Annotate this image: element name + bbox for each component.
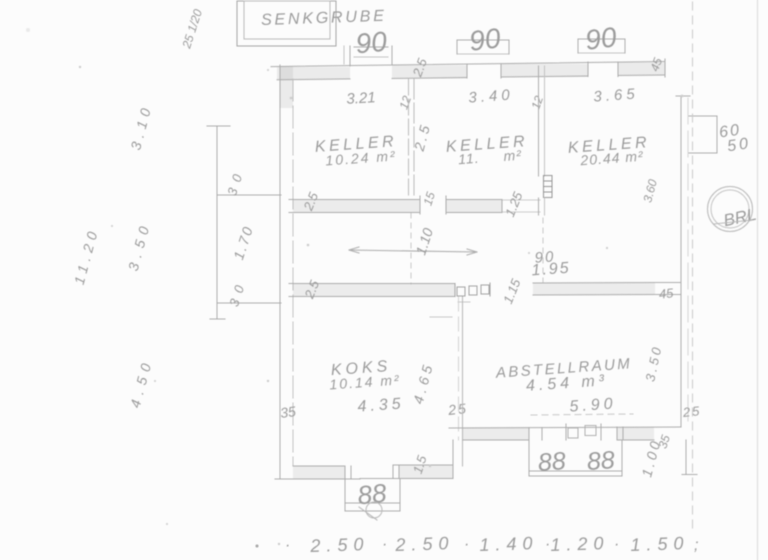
squiggle 25 on wall <box>409 56 430 80</box>
window well box bottom <box>529 440 622 476</box>
label KELLER 3 <box>567 134 650 157</box>
divider B dashes below <box>542 218 544 282</box>
stair tick top <box>207 125 230 127</box>
svg-text:25: 25 <box>446 400 468 418</box>
svg-text:2.50: 2.50 <box>394 533 455 555</box>
dim 30 lower <box>226 277 249 309</box>
window well B <box>457 40 509 54</box>
corridor width 1.10 <box>412 226 436 257</box>
svg-text:·: · <box>382 536 387 553</box>
window B size 90 <box>467 22 502 57</box>
stair tick bottom <box>210 318 225 320</box>
stair landing upper line <box>217 194 281 196</box>
label 60 <box>718 122 742 142</box>
bottom dim 1.50 <box>630 533 690 555</box>
right wall inner dashed <box>687 98 689 427</box>
dim 45 corner <box>658 285 675 302</box>
label 50 <box>726 135 752 155</box>
faint specks <box>26 28 683 548</box>
bottom dim 1.20 <box>550 533 610 555</box>
koks wall jambs <box>345 465 399 479</box>
page edge line right <box>757 0 759 560</box>
svg-text:3.65: 3.65 <box>593 85 639 105</box>
top wall outer line <box>271 62 665 67</box>
door width 15 <box>420 190 438 207</box>
svg-text:3.21: 3.21 <box>346 89 376 108</box>
left wall thickness 35 <box>279 403 297 421</box>
squiggle 25 wall2 left <box>301 277 322 301</box>
koks bottom wall right part <box>360 465 453 479</box>
wall1 door jamb left <box>419 196 421 214</box>
svg-text:90: 90 <box>583 21 618 56</box>
bottom dim dot 4 <box>545 536 550 553</box>
dim 1.70 <box>230 223 256 261</box>
window well A <box>354 47 388 57</box>
dim 4.65 rotated <box>410 360 437 406</box>
wall2 door threshold <box>455 283 490 302</box>
dim 3.50 rotated left <box>125 219 154 273</box>
bottom dim 2.50 b <box>394 533 455 555</box>
dim 3.65 <box>593 85 639 105</box>
seal circle inner <box>711 190 749 228</box>
squiggle 1.15 wall2 mid <box>500 276 524 306</box>
senkgrube box outer <box>237 1 336 46</box>
squiggle 1.25 wall1 right <box>502 189 526 219</box>
top wall band seg2 <box>392 66 467 79</box>
wall2 right corner <box>660 283 681 295</box>
interior wall1 band left <box>289 200 420 213</box>
right wall top tick <box>676 95 690 97</box>
abstellraum bottom wall right seg <box>617 427 654 440</box>
svg-text:90: 90 <box>467 22 502 57</box>
corridor left wall to senkgrube <box>344 46 350 66</box>
property dashed line right <box>692 2 694 530</box>
seal underline <box>714 220 752 224</box>
squiggle 35 right <box>655 433 673 450</box>
bottom dim dot 1 <box>285 537 290 554</box>
dim 3.40 <box>468 86 514 106</box>
divider wall B line1 <box>538 66 540 176</box>
divider wall A line2 <box>413 79 415 199</box>
well glyphs 88 right <box>586 446 616 476</box>
scale note 25 1/20 rotated <box>179 7 205 51</box>
interior wall1 band right <box>446 200 502 213</box>
abstellraum bottom wall left seg <box>463 428 543 441</box>
svg-text:·: · <box>614 536 619 553</box>
dashed line under 5.90 <box>531 414 633 415</box>
wall1 door stub lines <box>502 200 540 212</box>
squiggle 2.5 divider A <box>411 121 434 154</box>
area 20.44 m2 <box>579 148 645 168</box>
tick at divider top <box>430 316 452 318</box>
squiggle 25 wall1 left <box>300 189 321 213</box>
svg-text:4.35: 4.35 <box>357 395 405 415</box>
svg-text:1.95: 1.95 <box>531 260 571 280</box>
svg-text:;: ; <box>694 537 698 554</box>
area 11 m2 <box>458 147 523 167</box>
dim 1.95 <box>531 260 571 280</box>
svg-text:35: 35 <box>279 403 297 421</box>
dim 3.50 right rotated <box>642 343 664 383</box>
svg-text:3.40: 3.40 <box>468 86 514 106</box>
divider B stub <box>539 198 545 215</box>
label KOKS <box>330 358 392 379</box>
dim 30 upper <box>224 166 247 198</box>
window C size 90 <box>583 21 618 56</box>
top wall band seg1 <box>277 67 350 80</box>
svg-text:88: 88 <box>586 446 616 476</box>
divider wall KOKS/ABSTELLRAUM <box>459 297 463 466</box>
bottom dim dot 3 <box>464 536 469 553</box>
wall thickness 12 right <box>528 94 546 112</box>
door threshold symbols <box>566 424 601 440</box>
step vertical 1 <box>452 440 454 479</box>
outside stair line vertical <box>216 126 218 319</box>
squiggle 15 step <box>410 453 430 476</box>
bottom dim 1.40 <box>479 533 539 555</box>
chimney box <box>345 479 400 512</box>
dim 25 bottom right <box>681 403 702 420</box>
svg-text:50: 50 <box>726 135 752 155</box>
divider wall B line2 <box>544 66 546 176</box>
label SENKGRUBE <box>261 8 387 29</box>
divider A dashes below <box>410 213 412 284</box>
svg-text:1.40: 1.40 <box>479 533 539 555</box>
senkgrube box inner <box>244 1 330 39</box>
koks bottom wall <box>275 466 360 479</box>
svg-text:·: · <box>285 537 290 554</box>
area 10.14 m2 <box>329 372 401 393</box>
corridor right wall to senkgrube <box>391 46 393 64</box>
svg-text:90: 90 <box>354 26 388 60</box>
bottom right wall stub <box>682 440 697 475</box>
well glyphs 88 left <box>537 447 567 477</box>
svg-text:1.50: 1.50 <box>630 533 690 555</box>
svg-text:45: 45 <box>658 285 675 302</box>
svg-text:25: 25 <box>681 403 702 420</box>
label KELLER 2 <box>445 133 528 156</box>
svg-text:88: 88 <box>356 478 388 511</box>
area 4.54 m2 <box>525 372 608 395</box>
interior wall2 band right <box>533 283 660 296</box>
wall1 door jamb right <box>445 196 447 214</box>
left wall inner <box>292 79 294 466</box>
top wall band seg3 <box>501 64 588 77</box>
dim 3.60 rotated <box>640 178 660 204</box>
dim 3.10 rotated left <box>127 102 155 152</box>
dim 4.35 <box>357 395 405 415</box>
wall end cap right <box>664 59 666 77</box>
interior wall2 band left <box>289 284 455 297</box>
dim 3.21 <box>346 89 376 108</box>
svg-text:5.90: 5.90 <box>569 395 617 415</box>
window well C <box>578 39 625 53</box>
window C jambs <box>588 62 618 77</box>
seal circle outer <box>708 187 753 232</box>
window B jambs <box>467 64 501 78</box>
dim 1.00 rotated <box>638 437 664 479</box>
dim 5.90 <box>569 395 617 415</box>
corridor dim arrow <box>349 247 477 255</box>
lightshaft box 60x50 <box>689 116 717 153</box>
seal text BRL <box>722 205 758 230</box>
area 10.24 m2 <box>325 148 397 169</box>
dim 11.20 rotated <box>71 225 102 286</box>
label KELLER 1 <box>314 133 397 156</box>
squiggle 45 wall end <box>647 56 665 74</box>
top wall band seg4 <box>618 63 665 76</box>
left wall fill top <box>280 66 293 108</box>
chimney flues 88 <box>356 478 388 511</box>
svg-text:·: · <box>464 536 469 553</box>
svg-text:1.20: 1.20 <box>550 533 610 555</box>
chimney lower loop <box>359 502 382 520</box>
dim 25 step <box>446 400 468 418</box>
left wall outer <box>279 65 281 479</box>
dim 4.50 rotated left <box>127 356 156 410</box>
svg-text:2.50: 2.50 <box>309 534 370 556</box>
stair landing lower line <box>217 302 281 304</box>
bottom dim 2.50 a <box>309 534 370 556</box>
label ABSTELLRAUM <box>494 355 632 382</box>
bottom dim semicolon <box>694 537 698 554</box>
abstellraum bottom wall top line <box>449 427 681 428</box>
right wall outer <box>680 96 682 427</box>
bottom dim dot 2 <box>382 536 387 553</box>
divider wall A line1 <box>408 79 410 199</box>
wall thickness 12 left <box>396 94 414 112</box>
bottom dim dot 5 <box>614 536 619 553</box>
door width 90 <box>534 248 556 266</box>
svg-text:88: 88 <box>537 447 567 477</box>
window A size 90 <box>354 26 388 60</box>
divider B door hatch <box>544 176 553 198</box>
